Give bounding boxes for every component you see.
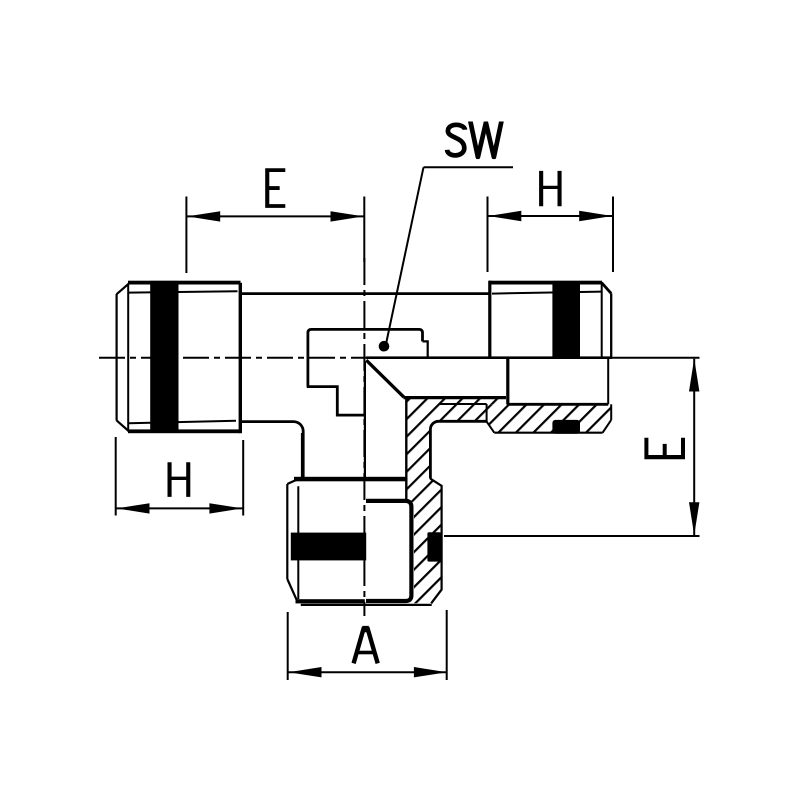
dimension H bottom-left: label H (168, 462, 191, 497)
bottom fitting left face (286, 484, 288, 579)
dimension E right: extension lines (612, 357, 700, 359)
hatch main body lower wall (407, 399, 507, 479)
right fitting bottom-right chamfer (603, 420, 612, 433)
dimension E top: label E (265, 168, 285, 208)
vertical branch centerline (363, 258, 365, 616)
dimension A bottom: extension lines (287, 612, 289, 680)
horizontal axis centerline (99, 357, 382, 359)
bottom fitting bottom thin edge (301, 604, 432, 606)
SW underline (424, 166, 514, 168)
right fitting entrance notch vertical (486, 404, 488, 422)
dimension H bottom-left: dimension line (116, 507, 244, 509)
bottom fitting right outline chamfer-edge-chamfer (430, 479, 441, 604)
branch bore right wall (405, 398, 407, 500)
dimension A bottom: right arrow (414, 667, 447, 677)
dimension E top: dimension line (186, 215, 364, 217)
right fitting left mating edge (488, 281, 491, 358)
bottom fitting top thick edge (294, 477, 407, 482)
dimension H top: extension lines (487, 197, 489, 273)
dimension E top: left arrow (187, 211, 220, 221)
left fitting bottom chamfer (117, 420, 130, 431)
top boss left steps (307, 387, 366, 416)
right fitting thread root line (492, 292, 602, 294)
right fitting seal band lower section (552, 420, 580, 434)
dimension H top: right arrow (579, 211, 612, 221)
hatch right fitting lower wall (487, 404, 612, 432)
right fitting top-right chamfer (602, 283, 612, 294)
bottom fitting bottom thick edge (296, 599, 365, 603)
right fitting right edge upper (610, 293, 612, 357)
bottom fitting bottom-left chamfer (287, 579, 297, 602)
dimension E right: bottom arrow (689, 502, 699, 535)
left fitting bottom thick edge (128, 429, 241, 433)
right fitting bore right edge (607, 358, 609, 405)
bottom fitting top-left chamfer (287, 478, 301, 484)
SW leader line (386, 167, 424, 344)
solid axis edge line through section (366, 356, 612, 359)
right fitting entrance chamfer (487, 422, 495, 433)
dimension H bottom-left: right arrow (209, 503, 242, 513)
right fitting right edge lower (610, 404, 612, 420)
left fitting chamfer root vertical (127, 284, 129, 432)
dimension A bottom: label A (354, 626, 378, 664)
dimension E top: extension lines (185, 197, 187, 274)
dimension E right: dimension line (693, 359, 695, 535)
internal cone diagonal (366, 360, 404, 397)
top boss right small step (423, 341, 428, 357)
left fitting bottom thread root line (129, 421, 236, 424)
left fitting black seal band (150, 281, 178, 433)
right fitting top thick edge (489, 281, 602, 285)
dimension A bottom: dimension line (288, 671, 447, 673)
dimension H top: dimension line (488, 215, 614, 217)
label SW (447, 125, 465, 156)
SW leader dot (379, 341, 390, 352)
main body top edge (241, 292, 489, 295)
right fitting bore left thick edge (506, 358, 509, 405)
right fitting chamfer root vertical (601, 284, 603, 357)
branch stem left wall (301, 433, 304, 478)
section boundary line at branch centerline (364, 362, 366, 478)
bottom fitting black seal band (291, 533, 366, 561)
dimension H top: left arrow (488, 211, 521, 221)
main body bottom edge with rounded corner to branch left wall (241, 422, 303, 478)
bottom fitting seal band right section (427, 532, 441, 561)
dimension E top: right arrow (331, 211, 364, 221)
dimension H bottom-left: left arrow (117, 503, 150, 513)
left fitting top thread root line (129, 291, 238, 292)
left fitting top thick edge (128, 281, 241, 285)
hatch bottom fitting right side (407, 479, 442, 604)
right fitting bore bottom edge (507, 403, 608, 406)
branch stem right wall with fillet from body bottom (430, 421, 486, 478)
internal bore thick horizontal (403, 396, 506, 399)
left fitting right edge (239, 283, 242, 433)
dimension E right: top arrow (689, 359, 699, 392)
dimension H bottom-left: extension lines (115, 437, 117, 516)
dimension H top: label H (539, 171, 562, 206)
left fitting left face (115, 294, 117, 421)
right fitting black seal band upper (552, 281, 580, 358)
body bore wall thin line (440, 403, 487, 405)
bottom fitting chamfer root vertical (297, 486, 299, 599)
dimension A bottom: left arrow (289, 667, 322, 677)
bottom fitting inner bore thick outline (366, 501, 411, 601)
dimension E right: label E rotated (644, 438, 685, 460)
top boss outline with rounded corners (308, 329, 423, 386)
left fitting top chamfer (117, 283, 130, 294)
right fitting bottom edge (494, 432, 602, 434)
